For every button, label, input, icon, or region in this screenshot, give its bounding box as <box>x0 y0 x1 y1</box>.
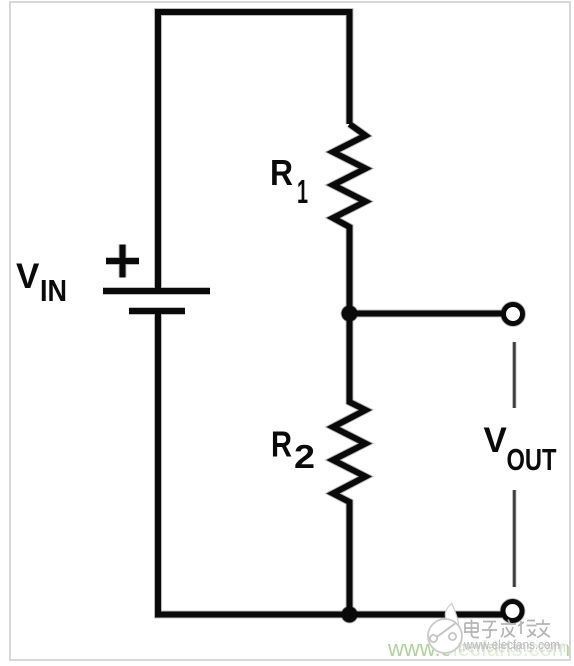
svg-text:IN: IN <box>40 273 67 308</box>
svg-text:R: R <box>271 424 292 465</box>
svg-text:OUT: OUT <box>507 442 557 477</box>
svg-text:2: 2 <box>294 438 315 475</box>
svg-text:R: R <box>270 152 293 193</box>
svg-text:1: 1 <box>297 173 308 210</box>
svg-text:V: V <box>484 421 508 460</box>
svg-text:V: V <box>16 257 40 296</box>
svg-text:www.elecfans.com: www.elecfans.com <box>463 637 560 652</box>
